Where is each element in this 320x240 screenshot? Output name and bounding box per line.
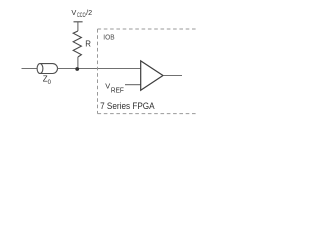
wire VREF to buffer input	[125, 84, 141, 86]
svg-text:REF: REF	[111, 87, 125, 95]
buffer U1	[141, 61, 163, 90]
IOB boundary dashed bottom edge	[98, 113, 196, 115]
junction node	[75, 67, 79, 71]
IOB boundary dashed top edge	[98, 28, 196, 30]
transmission line Z0 left end cap	[37, 64, 43, 74]
svg-text:R: R	[85, 38, 91, 48]
resistor R	[73, 31, 81, 57]
transmission line Z0 body	[40, 64, 58, 74]
svg-text:CCO: CCO	[77, 12, 86, 19]
svg-text:7 Series FPGA: 7 Series FPGA	[100, 101, 155, 111]
wire from power bar to resistor top	[77, 22, 79, 31]
wire from resistor bottom to junction	[77, 57, 79, 69]
svg-text:IOB: IOB	[103, 33, 114, 42]
power rail bar VCCO/2	[74, 21, 83, 23]
svg-text:V: V	[71, 8, 76, 17]
wire left stub into transmission line	[22, 68, 41, 70]
wire from transmission line to buffer input	[58, 68, 141, 70]
IOB boundary dashed left edge	[97, 29, 99, 114]
svg-text:/2: /2	[86, 10, 92, 17]
svg-text:V: V	[105, 81, 110, 90]
wire buffer output	[163, 75, 182, 77]
svg-text:0: 0	[48, 79, 52, 86]
